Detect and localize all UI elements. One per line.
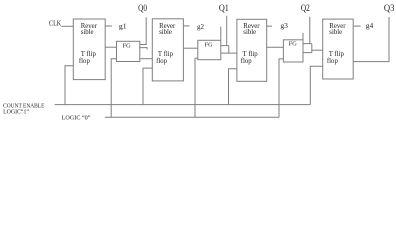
- wire FG3 output P to node Q2: [303, 17, 312, 44]
- wire FG3 to U4 input: [312, 49, 323, 51]
- svg-text:flop: flop: [79, 58, 91, 65]
- svg-text:FG: FG: [123, 42, 132, 49]
- wire FG1 input B from LOGIC 0 bus: [111, 59, 116, 117]
- wire U2 Q to FG2 input A: [183, 47, 197, 49]
- wire U2 count enable input: [143, 68, 152, 105]
- svg-text:sible: sible: [329, 29, 342, 36]
- Feynman gate FG2: [198, 40, 221, 59]
- wire FG3 input B from LOGIC 0 bus: [279, 59, 283, 117]
- wire U3 count enable input: [229, 69, 237, 105]
- wire U3 output g3 tick: [267, 25, 272, 27]
- wire FG2 output Q to U3: [221, 46, 237, 54]
- wire U4 output g4 tick: [353, 25, 361, 27]
- svg-text:COUNT ENABLE: COUNT ENABLE: [3, 104, 45, 110]
- svg-text:FG: FG: [205, 42, 214, 49]
- svg-text:sible: sible: [243, 29, 256, 36]
- reversible T flip flop U4: [323, 19, 354, 79]
- wire COUNT ENABLE bus: [55, 104, 311, 106]
- wire FG2 top stub: [220, 27, 222, 41]
- wire FG1 output stub: [140, 48, 147, 50]
- svg-text:Q3: Q3: [384, 3, 395, 13]
- wire FG3 top stub: [302, 33, 304, 40]
- svg-text:sible: sible: [159, 29, 172, 36]
- wire U4 count enable input: [310, 66, 322, 104]
- wire FG3 output Q jog: [303, 44, 312, 53]
- svg-text:g3: g3: [280, 21, 288, 30]
- wire U3 Q to FG3 input A: [267, 46, 284, 48]
- svg-text:CLK: CLK: [49, 18, 62, 27]
- wire U1 count enable input: [65, 66, 73, 105]
- svg-text:g1: g1: [119, 22, 127, 31]
- wire U1 Q to FG1 input A: [105, 46, 116, 48]
- wire U2 output g2 tick: [183, 25, 189, 27]
- wire FG1 output P to node Q0: [140, 17, 146, 44]
- wire CLK to U1: [61, 25, 73, 27]
- svg-text:Q2: Q2: [301, 3, 310, 13]
- svg-text:LOGIC“1”: LOGIC“1”: [3, 109, 29, 116]
- wire U1 output g1 tick: [105, 25, 112, 27]
- reversible T flip flop U3: [237, 19, 267, 81]
- svg-text:Q0: Q0: [138, 3, 147, 13]
- wire FG2 output P to node Q1: [221, 16, 229, 46]
- svg-text:FG: FG: [289, 41, 298, 48]
- wire FG1 output Q to U2: [140, 58, 153, 60]
- reversible T flip flop U2: [152, 19, 183, 81]
- svg-text:g2: g2: [197, 22, 204, 31]
- svg-text:sible: sible: [81, 29, 94, 36]
- svg-text:flop: flop: [327, 58, 339, 65]
- wire U4 Q to node Q3: [353, 17, 389, 62]
- svg-text:Q1: Q1: [219, 3, 229, 13]
- Feynman gate FG3: [283, 40, 303, 62]
- svg-text:flop: flop: [241, 58, 253, 65]
- wire LOGIC 0 bus: [105, 116, 279, 118]
- reversible T flip flop U1: [73, 19, 105, 80]
- svg-text:flop: flop: [156, 58, 168, 65]
- svg-text:LOGIC “0”: LOGIC “0”: [62, 115, 91, 122]
- svg-text:g4: g4: [366, 21, 374, 30]
- Feynman gate FG1: [117, 41, 140, 61]
- wire FG2 input B from LOGIC 0 bus: [195, 58, 198, 117]
